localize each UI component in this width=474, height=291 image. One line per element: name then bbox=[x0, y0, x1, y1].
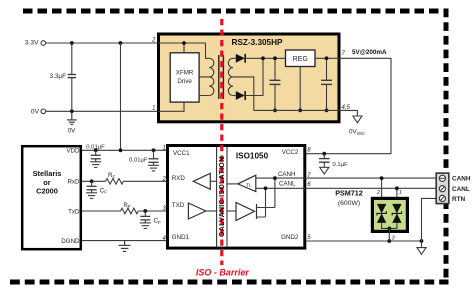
tvs PSM712 box bbox=[372, 198, 407, 231]
capacitor filter A bbox=[270, 58, 281, 110]
terminal CANH bbox=[439, 175, 445, 181]
block REG bbox=[286, 50, 316, 67]
svg-text:RxD: RxD bbox=[67, 179, 80, 186]
node TxD/CF bbox=[143, 209, 147, 213]
capacitor 0.01uF second bbox=[148, 150, 159, 171]
svg-text:0.1µF: 0.1µF bbox=[333, 162, 349, 168]
svg-text:ISO - Barrier: ISO - Barrier bbox=[196, 268, 250, 278]
wire GND2 bbox=[306, 240, 422, 242]
wire XFMR outputs to primary bbox=[199, 77, 209, 96]
svg-text:0.01µF: 0.01µF bbox=[86, 144, 105, 150]
svg-text:TxD: TxD bbox=[68, 208, 80, 215]
node D2/top rail bbox=[261, 56, 265, 60]
wire TxD bbox=[82, 210, 188, 212]
connector J1 bbox=[436, 173, 449, 204]
frame bottom dashed border bbox=[10, 280, 449, 285]
svg-text:Stellaris: Stellaris bbox=[33, 169, 62, 178]
wire secondary bottom bbox=[233, 95, 236, 97]
svg-text:RTN: RTN bbox=[452, 196, 466, 203]
wire PSM pin3 bbox=[388, 228, 390, 241]
wire secondary top bbox=[233, 57, 236, 59]
svg-text:TXD: TXD bbox=[172, 202, 185, 209]
node capA top bbox=[273, 56, 277, 60]
wire PSM pin1 riser bbox=[396, 188, 398, 204]
node tvs bus bbox=[387, 227, 391, 231]
wire 0V rail bbox=[46, 110, 158, 112]
node RxD/CF bbox=[90, 179, 94, 183]
wire RxD bbox=[82, 180, 193, 182]
svg-text:VDD: VDD bbox=[66, 148, 80, 155]
node 0V/ground bbox=[70, 109, 74, 113]
frame top dashed border bbox=[23, 9, 449, 14]
ground DGND bbox=[119, 241, 131, 252]
node 3.3V/VDD drop bbox=[119, 41, 123, 45]
node GND2/PSM pin3 bbox=[387, 239, 391, 243]
wire driver to CANL riser bbox=[257, 188, 266, 217]
svg-text:3.3µF: 3.3µF bbox=[50, 73, 67, 80]
node VCC2/cap bbox=[322, 152, 326, 156]
wire strip to CAN receiver bbox=[227, 183, 238, 185]
wire RTN bbox=[422, 198, 437, 241]
wire VDD to VCC1 bbox=[82, 149, 170, 151]
wire PSM pin2 riser bbox=[381, 178, 383, 204]
svg-text:1: 1 bbox=[399, 190, 402, 196]
wire bottom rail 0Viso bbox=[254, 109, 341, 111]
svg-text:3.3V: 3.3V bbox=[25, 40, 39, 47]
terminal 3.3V bbox=[41, 41, 46, 46]
svg-text:2: 2 bbox=[376, 190, 380, 196]
svg-text:XFMR: XFMR bbox=[176, 70, 194, 77]
svg-text:ISO1050: ISO1050 bbox=[236, 151, 269, 160]
svg-text:CANH: CANH bbox=[452, 176, 471, 183]
svg-text:CANL: CANL bbox=[279, 181, 296, 188]
capacitor CF upper bbox=[86, 181, 97, 198]
node 3.3V/C-bulk bbox=[70, 41, 74, 45]
node GND2/RTN bbox=[420, 239, 424, 243]
wire GND2 to iso ground bbox=[421, 241, 423, 248]
node CANL/driver bbox=[264, 186, 268, 190]
resistor RF lower bbox=[121, 208, 139, 214]
node capB bottom bbox=[325, 109, 329, 113]
chip ISO1050 box bbox=[168, 146, 305, 249]
svg-text:CANH: CANH bbox=[278, 171, 296, 178]
capacitor 0.01uF first bbox=[90, 150, 101, 167]
svg-text:CANL: CANL bbox=[452, 186, 470, 193]
diode D2 bbox=[236, 91, 245, 100]
wire 5V to VCC2 bbox=[306, 58, 391, 153]
wire 0Viso stub bbox=[341, 110, 358, 116]
node CANH/PSM bbox=[380, 176, 384, 180]
wire strip to CAN driver bbox=[227, 210, 236, 212]
svg-text:Drive: Drive bbox=[177, 78, 192, 85]
wire secondary center tap bbox=[233, 77, 254, 111]
svg-text:DGND: DGND bbox=[61, 238, 80, 245]
node capA bottom bbox=[273, 109, 277, 113]
ground arrow GND2 bbox=[417, 248, 426, 255]
isolation strip bbox=[217, 147, 227, 248]
tvs right diode pair bbox=[392, 204, 401, 223]
svg-text:REG: REG bbox=[293, 56, 308, 63]
svg-text:2: 2 bbox=[151, 38, 156, 44]
transformer T1 secondary bbox=[228, 58, 233, 95]
svg-text:1: 1 bbox=[152, 106, 155, 112]
block XFMR Drive bbox=[170, 53, 199, 102]
buffer TXD driver bbox=[188, 203, 205, 219]
node VDD/cap1 bbox=[94, 148, 98, 152]
svg-text:5V@200mA: 5V@200mA bbox=[352, 49, 387, 56]
svg-text:1: 1 bbox=[162, 146, 165, 152]
svg-text:GND1: GND1 bbox=[172, 234, 190, 241]
svg-text:C2000: C2000 bbox=[36, 187, 58, 196]
svg-text:GND2: GND2 bbox=[281, 234, 299, 241]
ground 0Viso arrow top bbox=[353, 116, 362, 123]
wire CANL bbox=[256, 187, 436, 189]
wire tvs bottom bus bbox=[382, 223, 397, 229]
node XFMR top bbox=[182, 41, 186, 45]
transformer T1 core bbox=[219, 55, 224, 99]
node VDD/cap2 bbox=[152, 148, 156, 152]
capacitor 3.3uF bbox=[68, 43, 77, 111]
node VDD/3.3V drop bbox=[119, 148, 123, 152]
tvs left diode pair bbox=[377, 204, 386, 223]
terminal RTN bbox=[439, 195, 445, 201]
svg-text:0.01µF: 0.01µF bbox=[129, 157, 148, 163]
buffer CAN driver bbox=[236, 203, 255, 221]
terminal CANL bbox=[439, 186, 445, 192]
svg-text:PSM712: PSM712 bbox=[335, 188, 363, 197]
svg-text:or: or bbox=[43, 178, 51, 187]
wire 0V inside module bbox=[158, 102, 184, 111]
wire REG output rail bbox=[315, 57, 392, 59]
svg-text:VCC1: VCC1 bbox=[173, 150, 190, 157]
node capB top bbox=[325, 56, 329, 60]
resistor RF upper bbox=[106, 179, 124, 185]
wire DGND to GND1 bbox=[82, 240, 170, 242]
wire RXD buffer to strip bbox=[210, 180, 216, 182]
svg-text:2: 2 bbox=[161, 177, 166, 183]
wire CANH bbox=[256, 177, 436, 179]
diode D1 bbox=[236, 54, 245, 63]
buffer CAN receiver TL bbox=[238, 175, 256, 191]
transformer T1 primary bbox=[209, 58, 214, 95]
svg-text:RSZ-3.305HP: RSZ-3.305HP bbox=[232, 38, 284, 47]
svg-text:RXD: RXD bbox=[172, 175, 186, 182]
driver output bar bbox=[256, 204, 258, 219]
wire D1 cathode to REG bbox=[245, 57, 285, 59]
ground arrow VCC2 cap bbox=[320, 167, 329, 174]
capacitor CF lower bbox=[140, 211, 151, 229]
terminal 0V bbox=[41, 109, 46, 114]
wire 3.3V rail bbox=[46, 42, 158, 44]
capacitor 0.1uF bbox=[319, 154, 330, 168]
wire 3.3V to VDD drop bbox=[120, 43, 122, 150]
iso barrier red dashed line bbox=[220, 19, 223, 265]
module RSZ-3.305HP box bbox=[159, 34, 340, 122]
svg-text:(600W): (600W) bbox=[338, 200, 360, 207]
wire 3.3V inside module bbox=[158, 43, 209, 58]
capacitor filter B bbox=[321, 58, 332, 110]
node CANH/driver bbox=[273, 176, 277, 180]
svg-text:0V: 0V bbox=[31, 108, 40, 115]
frame right dashed border bbox=[444, 9, 449, 284]
wire REG ground bbox=[299, 67, 301, 111]
wire driver to CANH riser bbox=[257, 178, 275, 207]
svg-text:0V: 0V bbox=[68, 127, 76, 134]
svg-text:TL: TL bbox=[246, 182, 252, 188]
buffer RXD receiver bbox=[193, 173, 210, 189]
ground 0V input bbox=[67, 111, 77, 124]
svg-text:GALVANIC ISOLATION: GALVANIC ISOLATION bbox=[219, 157, 226, 237]
node REG/bottom rail bbox=[298, 109, 302, 113]
mcu Stellaris/C2000 box bbox=[22, 146, 81, 249]
wire D2 cathode riser bbox=[245, 58, 263, 95]
wire TXD buffer to strip bbox=[206, 210, 217, 212]
node CANL/PSM bbox=[395, 186, 399, 190]
svg-text:VCC2: VCC2 bbox=[282, 149, 299, 156]
